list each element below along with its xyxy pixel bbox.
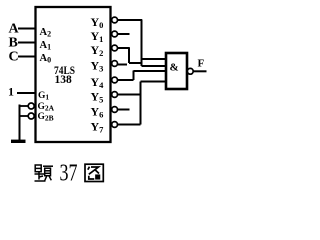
wire input C xyxy=(18,56,36,58)
wire input B xyxy=(18,42,36,44)
wire Y1 stub xyxy=(118,33,130,35)
svg-text:A2: A2 xyxy=(40,27,52,39)
inversion bubble pin Y4 xyxy=(112,77,118,83)
wire Y5 horizontal xyxy=(118,94,141,96)
svg-text:C: C xyxy=(9,50,19,65)
caption glyph 图 (hand drawn) xyxy=(85,164,103,181)
wire G2A G2B to ground xyxy=(19,105,21,141)
svg-text:F: F xyxy=(198,58,205,70)
wire gate input 3 xyxy=(134,70,167,72)
wire Y4 riser xyxy=(133,71,135,81)
svg-text:G2B: G2B xyxy=(38,112,54,123)
wire gate input 4 xyxy=(141,81,167,83)
svg-text:B: B xyxy=(9,36,18,51)
svg-text:G2A: G2A xyxy=(38,102,55,113)
svg-text:A1: A1 xyxy=(40,40,52,52)
svg-text:1: 1 xyxy=(8,85,14,99)
wire stub G2B xyxy=(20,115,29,117)
inversion bubble pin Y3 xyxy=(112,61,118,67)
inversion bubble pin Y5 xyxy=(112,92,118,98)
inversion bubble gate output xyxy=(187,68,193,74)
wire Y7 horizontal xyxy=(118,124,141,126)
wire Y6 stub xyxy=(118,109,130,111)
wire stub G2A xyxy=(20,105,29,107)
wire Y2 vertical drop xyxy=(128,48,130,63)
wire Y2 elbow to junction xyxy=(129,62,142,64)
wire Y4 horizontal xyxy=(118,79,134,81)
inversion bubble pin Y6 xyxy=(112,107,118,113)
wire input A xyxy=(18,28,36,30)
wire Y0 horizontal xyxy=(118,19,143,21)
svg-text:37: 37 xyxy=(60,161,78,187)
caption glyph 题 (hand drawn) xyxy=(35,165,54,181)
wire gate output xyxy=(193,70,206,72)
NAND gate U2 body xyxy=(166,53,187,89)
svg-text:G1: G1 xyxy=(38,91,49,102)
IC U1 74LS138 body xyxy=(36,7,111,142)
wire Y5 Y7 riser to gate input 4 xyxy=(140,82,142,125)
inversion bubble pin G2B xyxy=(28,113,34,119)
wire gate input 1 xyxy=(142,58,167,60)
inversion bubble pin G2A xyxy=(28,103,34,109)
inversion bubble pin Y0 xyxy=(112,17,118,23)
wire Y2 horizontal xyxy=(118,47,130,49)
inversion bubble pin Y7 xyxy=(112,122,118,128)
svg-text:A: A xyxy=(9,22,20,37)
wire Y3 stub xyxy=(118,64,128,66)
wire Y0 vertical drop xyxy=(141,20,143,66)
svg-text:&: & xyxy=(170,62,179,74)
wire gate input 2 xyxy=(142,65,167,67)
svg-text:A0: A0 xyxy=(40,53,52,65)
inversion bubble pin Y2 xyxy=(112,45,118,51)
inversion bubble pin Y1 xyxy=(112,31,118,37)
wire constant 1 to G1 xyxy=(17,92,36,94)
svg-text:138: 138 xyxy=(55,74,73,86)
ground xyxy=(11,140,26,143)
